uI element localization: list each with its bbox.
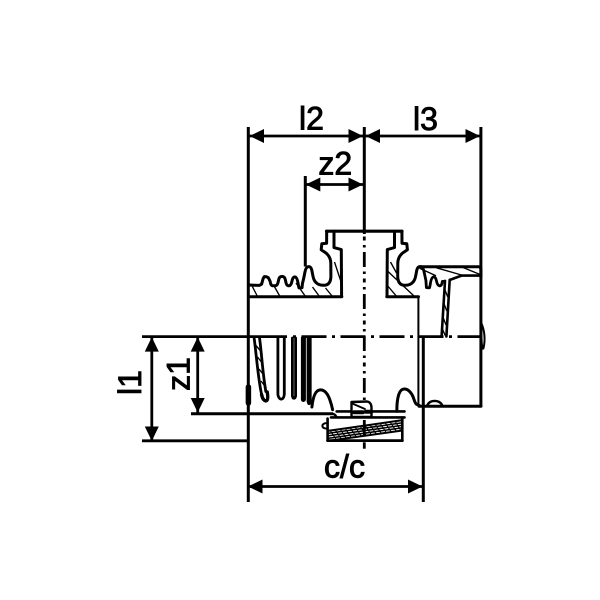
top branch rim bbox=[327, 230, 403, 233]
arrow c/c right bbox=[408, 480, 423, 494]
top branch outer right wall + saddle U + end bump (mirror) bbox=[398, 231, 481, 285]
tab inner diagonal bbox=[352, 404, 365, 410]
dimension line z1 bbox=[196, 337, 199, 413]
tab inner marks bbox=[354, 410, 363, 414]
thread band inner lines bbox=[329, 423, 402, 438]
rib pair 3 bbox=[308, 338, 311, 404]
extension line c/c right (x=423) bbox=[422, 337, 425, 502]
arrow l1 top bbox=[145, 337, 159, 352]
extension line left (x=248) bbox=[247, 127, 250, 502]
rib pair 2 bbox=[292, 338, 295, 398]
dimension line z2 bbox=[305, 183, 363, 186]
bead on bottom edge bbox=[427, 401, 443, 406]
hatch curved rib bbox=[256, 345, 262, 352]
lower-left: left edge thick blob bbox=[246, 387, 252, 403]
key tab on end face bbox=[352, 402, 372, 418]
bore top edge right of branch bbox=[387, 295, 419, 298]
top branch outer left wall + saddle U + end bump + corrugated band profile bbox=[249, 231, 331, 288]
hatch left branch wall bbox=[335, 262, 342, 283]
arrow l2 right bbox=[349, 129, 364, 143]
centerline horizontal bbox=[293, 335, 481, 338]
insert wedge left line bbox=[442, 281, 445, 337]
arrow l2 left bbox=[250, 129, 265, 143]
bottom edge of right sleeve bbox=[419, 405, 481, 408]
lower saddle bump bbox=[312, 390, 333, 410]
insert wedge top tick bbox=[442, 280, 445, 283]
curved rib foot bbox=[262, 392, 268, 401]
extension line top for l1/z1 (y=336.6) bbox=[142, 335, 287, 338]
arrow l3 left bbox=[366, 129, 381, 143]
step between body line and end face bbox=[333, 414, 337, 417]
svg-text:l1: l1 bbox=[112, 370, 148, 395]
top branch inner left wall bbox=[334, 231, 342, 296]
arrowheads bbox=[145, 129, 480, 494]
centerline vertical bbox=[363, 237, 366, 439]
thread band boundary top bbox=[329, 420, 402, 431]
arrow l3 right bbox=[466, 129, 481, 143]
svg-text:l3: l3 bbox=[413, 101, 438, 137]
hatch right band (shallow) bbox=[420, 268, 437, 276]
insert wedge right line bbox=[446, 280, 449, 337]
arrow z1 top bbox=[191, 337, 205, 352]
o-ring groove profile under right band (mirror of left corrugation) bbox=[420, 267, 442, 288]
svg-text:z1: z1 bbox=[161, 357, 197, 391]
rib thick bar bbox=[301, 338, 306, 400]
svg-text:z2: z2 bbox=[318, 146, 352, 182]
hatch right wall square bbox=[388, 272, 414, 297]
arrow z2 right bbox=[349, 178, 364, 192]
leaf at right end bbox=[481, 323, 484, 349]
hatch right branch wall bbox=[391, 262, 397, 273]
dimension line l3 bbox=[365, 135, 481, 138]
svg-text:l2: l2 bbox=[299, 100, 324, 136]
curved rib outer bbox=[254, 339, 261, 395]
dimension line c/c bbox=[248, 485, 424, 488]
bottom branch right wall bump bbox=[397, 389, 419, 411]
svg-text:c/c: c/c bbox=[324, 449, 365, 485]
thread band boundary bottom bbox=[329, 431, 402, 441]
extension line right (x=481) bbox=[479, 127, 482, 406]
rib pair 1 bbox=[278, 338, 284, 399]
extension line bottom z1 merged with body bottom line (y=413.7) bbox=[191, 412, 333, 415]
upper wall bottom edge (bore top) left bbox=[249, 295, 342, 298]
hatch left band bbox=[252, 286, 258, 297]
thread block left edge bbox=[326, 419, 329, 441]
hatch wedge bbox=[444, 288, 448, 297]
dimension line l1 bbox=[150, 337, 153, 442]
branch end face line 2 bbox=[331, 416, 405, 419]
arrow z1 bottom bbox=[191, 398, 205, 413]
top branch inner right wall bbox=[387, 231, 395, 296]
branch end face line 1 bbox=[337, 410, 405, 413]
HATCHING bbox=[252, 262, 480, 388]
arrow l1 bottom bbox=[145, 427, 159, 442]
curved rib inner bbox=[260, 339, 266, 392]
arrow c/c left bbox=[248, 480, 263, 494]
FITTING BODY bbox=[248, 231, 484, 441]
extension line bottom l1 (y=440.8) bbox=[142, 439, 249, 442]
right band bottom line with slant to insert bbox=[450, 276, 481, 280]
thread block bottom edge bbox=[328, 439, 403, 442]
extension line z2 left (x=305) bbox=[304, 176, 307, 267]
arrow z2 left bbox=[306, 178, 321, 192]
extension line middle (x=364) bbox=[363, 127, 366, 234]
thread block right edge bbox=[401, 418, 404, 441]
thread block nub bbox=[322, 423, 327, 428]
pipe-stop vertical (thin) bbox=[417, 297, 419, 404]
thread cross hatch bbox=[331, 422, 401, 440]
dimension line l2 bbox=[249, 135, 364, 138]
